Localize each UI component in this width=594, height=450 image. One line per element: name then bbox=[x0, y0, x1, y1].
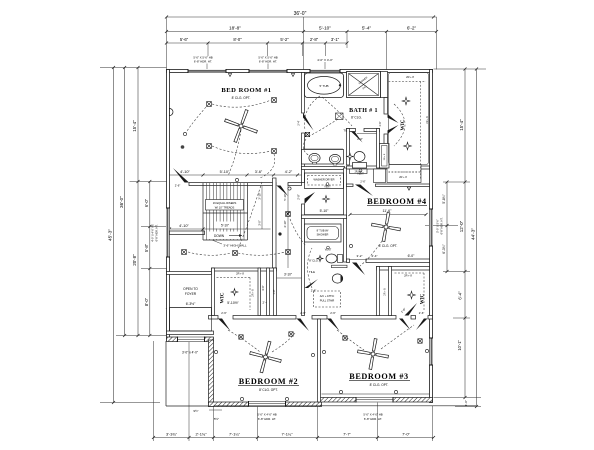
light bedroom2 1 bbox=[239, 335, 243, 339]
svg-text:2R + 8: 2R + 8 bbox=[406, 75, 414, 79]
door bbox=[303, 113, 314, 131]
svg-text:1'-0": 1'-0" bbox=[464, 400, 468, 406]
wic-tr dashed shelves bbox=[389, 82, 427, 180]
wall bedroom1 south bbox=[189, 183, 276, 186]
window bedroom1 W2 bbox=[249, 69, 287, 73]
bedroom3 interior floor line bbox=[322, 393, 430, 395]
outlet bedroom1 s bbox=[235, 178, 238, 181]
bedroom4 switch curve bbox=[360, 241, 382, 266]
toilet bath2 bbox=[326, 254, 337, 263]
light hall 3 bbox=[286, 212, 291, 217]
extension line mid bbox=[303, 17, 305, 70]
svg-text:2'-8": 2'-8" bbox=[310, 37, 319, 42]
outlet hall bbox=[288, 187, 291, 190]
wall bath west upper bbox=[302, 73, 305, 114]
svg-text:WIC: WIC bbox=[421, 293, 426, 304]
tick line left y268 bbox=[141, 268, 170, 270]
bedroom3 wiring 1 bbox=[337, 330, 364, 350]
ceiling fan bedroom1 bbox=[219, 104, 263, 148]
svg-text:4'-0" X 4'-0": 4'-0" X 4'-0" bbox=[317, 58, 333, 62]
svg-text:2R + 8: 2R + 8 bbox=[399, 176, 407, 179]
bedroom2 wiring 1 bbox=[228, 330, 260, 352]
toilet bath1 bbox=[354, 152, 365, 162]
window bedroom3 right bbox=[429, 338, 433, 365]
closet light bath2 bbox=[317, 256, 323, 262]
svg-text:36'-0": 36'-0" bbox=[119, 196, 124, 208]
bedroom1 wiring 4 bbox=[228, 130, 241, 176]
dim col 44-3 bbox=[476, 69, 478, 407]
bath2 water closet wall bbox=[332, 265, 348, 268]
dim col right inner 5-8 / 6-3 bbox=[446, 182, 448, 272]
light hall 1 bbox=[233, 251, 238, 256]
tick line right y406 bbox=[455, 406, 481, 408]
bath2 second toilet bbox=[332, 274, 342, 283]
door bbox=[173, 168, 189, 183]
closet light wic-mid bbox=[231, 289, 238, 296]
sink left bbox=[309, 153, 320, 162]
svg-text:FOYER: FOYER bbox=[185, 292, 197, 296]
svg-text:BEDROOM #3: BEDROOM #3 bbox=[349, 372, 408, 381]
wic-tr switch curve bbox=[394, 104, 405, 146]
dim row third tier bbox=[167, 42, 348, 44]
extension line right bbox=[436, 17, 438, 70]
bath wiring 4 bbox=[322, 97, 352, 126]
hall dim row lower bbox=[170, 228, 271, 230]
svg-text:WIC: WIC bbox=[220, 292, 226, 303]
svg-text:5'-0" X 4'-0" HB: 5'-0" X 4'-0" HB bbox=[257, 413, 276, 417]
stair void vertical dims bbox=[261, 186, 263, 229]
stair bottom edge bbox=[203, 239, 248, 241]
window left wall FX bbox=[166, 208, 170, 257]
dim col 15-4 20-8 bbox=[137, 68, 139, 336]
light hall 2 bbox=[286, 250, 291, 255]
knob dot bbox=[278, 232, 281, 235]
svg-text:2'-8": 2'-8" bbox=[297, 194, 301, 200]
svg-text:5'-8¾": 5'-8¾" bbox=[442, 193, 446, 203]
svg-text:15'-4": 15'-4" bbox=[459, 119, 464, 131]
ceiling fan bedroom2 bbox=[246, 337, 285, 376]
wall bath west lower bbox=[302, 133, 305, 183]
wall foyer top bbox=[167, 272, 212, 275]
door bbox=[405, 303, 418, 316]
tick line top-left bbox=[100, 67, 167, 69]
svg-text:VENT: VENT bbox=[324, 186, 331, 189]
svg-text:PULL STAIR: PULL STAIR bbox=[320, 299, 335, 303]
stair down arrow bbox=[208, 232, 240, 240]
wall bottom strip segment3 bbox=[312, 316, 327, 320]
tub bath1 bbox=[305, 73, 344, 98]
extension line bottom-left bbox=[153, 341, 155, 441]
svg-text:7'-7": 7'-7" bbox=[343, 431, 351, 436]
overhang line below bedroom3 bbox=[214, 405, 477, 407]
stair text box bbox=[206, 200, 244, 211]
bedroom3 wiring 2 bbox=[381, 325, 414, 349]
svg-text:TILE: TILE bbox=[309, 270, 315, 274]
svg-text:BATH # 1: BATH # 1 bbox=[349, 108, 378, 114]
dim 6-3half foyer bbox=[168, 307, 214, 309]
bath wiring 3 bbox=[303, 139, 310, 156]
svg-text:6'-4": 6'-4" bbox=[458, 291, 463, 300]
door hall to stairs bbox=[305, 192, 316, 204]
svg-text:3'-6": 3'-6" bbox=[255, 170, 263, 174]
door bbox=[388, 114, 399, 123]
door bbox=[388, 125, 399, 134]
outlet bedroom4 sw bbox=[349, 244, 352, 247]
wall bottom strip segment4 bbox=[341, 316, 396, 320]
svg-text:2R + 8: 2R + 8 bbox=[426, 116, 429, 124]
svg-text:3'-1": 3'-1" bbox=[331, 37, 340, 42]
door bedroom4 south bbox=[352, 263, 365, 276]
ac attic dashed box bbox=[314, 291, 341, 307]
vent triangle bedroom4 bbox=[407, 187, 410, 190]
door bedroom4 bbox=[355, 185, 373, 197]
bedroom1 wiring 1 bbox=[212, 100, 271, 107]
svg-text:3'-6" HIGH WALL: 3'-6" HIGH WALL bbox=[223, 244, 247, 248]
tick line right y397 bbox=[434, 397, 482, 399]
bedroom1 wiring 2 bbox=[212, 146, 271, 154]
door chime fixture bbox=[170, 109, 173, 116]
balcony left edge bbox=[165, 341, 167, 406]
door wic-br from bedroom3 bbox=[416, 319, 428, 331]
svg-text:2'-6": 2'-6" bbox=[175, 184, 181, 188]
svg-text:4'-10": 4'-10" bbox=[180, 170, 190, 174]
dim col inner left bbox=[149, 182, 151, 336]
svg-text:2'-6": 2'-6" bbox=[221, 311, 227, 315]
svg-text:A/C + ATTIC: A/C + ATTIC bbox=[320, 294, 335, 298]
svg-text:5'-10": 5'-10" bbox=[319, 25, 331, 30]
svg-text:5'-10": 5'-10" bbox=[220, 170, 230, 174]
svg-text:2'-4": 2'-4" bbox=[297, 120, 301, 125]
svg-text:2R + 8: 2R + 8 bbox=[236, 272, 244, 276]
svg-text:7'-1¼": 7'-1¼" bbox=[229, 431, 241, 436]
shower bath1 bbox=[347, 72, 381, 98]
bath wiring 2 bbox=[309, 119, 338, 136]
extension line balcony bbox=[188, 341, 190, 441]
outlet bedroom3 s1 bbox=[339, 390, 342, 393]
svg-text:W/ 10" TREADS: W/ 10" TREADS bbox=[215, 206, 235, 210]
outlet bedroom2 w bbox=[214, 350, 217, 353]
svg-text:SHOWER: SHOWER bbox=[317, 233, 329, 237]
wall stair east bbox=[273, 178, 277, 268]
svg-text:2'-6": 2'-6" bbox=[379, 121, 382, 126]
foyer opening bbox=[170, 308, 212, 332]
hall wiring 2 bbox=[290, 219, 306, 246]
wall bedroom4 north bbox=[347, 184, 354, 187]
wall chase right bbox=[274, 268, 277, 316]
door bbox=[277, 186, 289, 197]
window bedroom3 bottom bbox=[356, 397, 393, 403]
window balcony wall bbox=[178, 337, 205, 343]
bedroom1 wiring 5 bbox=[260, 154, 275, 178]
svg-text:20'-8": 20'-8" bbox=[132, 254, 137, 266]
wall chase mid bbox=[267, 268, 270, 316]
light bedroom3 1 bbox=[343, 336, 347, 340]
light hall diamond bbox=[323, 196, 330, 203]
tick line top-right bbox=[434, 68, 487, 70]
closet light toilet room bbox=[347, 153, 353, 159]
exterior right wall bbox=[430, 70, 433, 403]
svg-text:36'-0": 36'-0" bbox=[294, 11, 307, 17]
vanity counter bbox=[302, 150, 344, 165]
dim 3-10 hall bbox=[277, 277, 302, 279]
light bedroom2 2 bbox=[289, 332, 293, 336]
tick line right y271 bbox=[443, 271, 470, 273]
wall bath1 toilet room top bbox=[347, 129, 356, 132]
svg-text:3'-0": 3'-0" bbox=[257, 220, 261, 226]
svg-text:3'-10": 3'-10" bbox=[284, 273, 292, 277]
exterior hatched wall bedroom3 bottom bbox=[319, 398, 433, 403]
light bedroom1 se bbox=[272, 149, 277, 154]
vanity backsplash bbox=[303, 148, 343, 150]
window bedroom2 bottom bbox=[249, 401, 286, 407]
svg-text:6'-8": 6'-8" bbox=[262, 285, 265, 290]
svg-text:5'-10": 5'-10" bbox=[221, 224, 229, 228]
tick line right y318 bbox=[453, 317, 470, 319]
dim row 36-0 bbox=[167, 16, 434, 18]
window bedroom1 W1 bbox=[188, 69, 226, 73]
medicine box bbox=[336, 113, 344, 120]
svg-text:6'-8" HDR. HT.: 6'-8" HDR. HT. bbox=[258, 417, 276, 421]
svg-text:8' CLG. OPT.: 8' CLG. OPT. bbox=[232, 96, 251, 100]
wall bath south / vanity bbox=[302, 167, 345, 170]
svg-text:5'-4": 5'-4" bbox=[362, 25, 372, 30]
hall dim row upper bbox=[170, 174, 304, 176]
closet left of bedroom4 entry bbox=[350, 169, 368, 174]
svg-text:5'-10½": 5'-10½" bbox=[227, 301, 239, 305]
hall wiring 3 bbox=[188, 252, 231, 255]
svg-text:7'-0": 7'-0" bbox=[402, 431, 410, 436]
wall shower/wic divider bbox=[381, 72, 388, 98]
svg-text:5' TUB: 5' TUB bbox=[319, 84, 328, 88]
wic-tr inner outline bbox=[389, 73, 429, 165]
tick line left y181 bbox=[130, 181, 170, 183]
svg-text:2'-6": 2'-6" bbox=[300, 311, 306, 315]
bedroom1 wiring 3 bbox=[187, 107, 206, 131]
svg-text:WASHER DRYER: WASHER DRYER bbox=[313, 178, 334, 182]
svg-text:45'-3": 45'-3" bbox=[108, 229, 113, 241]
svg-text:4'-10": 4'-10" bbox=[179, 224, 189, 228]
wall wic-br top bbox=[377, 267, 430, 271]
svg-text:2'-1¾": 2'-1¾" bbox=[196, 431, 208, 436]
wall bath2 north bbox=[302, 215, 347, 219]
tub bath2 bbox=[305, 224, 342, 242]
svg-text:6'-8" HDR. HT.: 6'-8" HDR. HT. bbox=[440, 217, 444, 234]
svg-text:6'-8" HDR. HT.: 6'-8" HDR. HT. bbox=[259, 60, 277, 64]
exterior hatched wall bedroom2 bottom bbox=[209, 402, 322, 407]
wall laundry east + hall west bbox=[344, 168, 347, 262]
svg-text:6'-8" HDR. HT.: 6'-8" HDR. HT. bbox=[364, 417, 382, 421]
wiring bedroom1 to hall bbox=[238, 182, 262, 249]
exterior hatched wall balcony bbox=[167, 337, 214, 342]
bedroom4 reach-in closet bbox=[387, 165, 421, 183]
svg-text:2'-0": 2'-0" bbox=[357, 137, 363, 141]
svg-text:1'-9": 1'-9" bbox=[273, 289, 276, 294]
svg-text:8' CLG. OPT.: 8' CLG. OPT. bbox=[370, 383, 389, 387]
wall foyer bottom bbox=[167, 331, 214, 335]
dim col right 15-4 / 12-0 / 6-4 / 10-1 bbox=[464, 69, 466, 398]
stairwell risers bbox=[205, 183, 207, 240]
wall bottom strip segment2 bbox=[233, 316, 296, 320]
svg-text:5½": 5½" bbox=[214, 417, 219, 421]
exterior top wall bbox=[167, 70, 433, 73]
sink right bbox=[329, 154, 340, 163]
svg-text:6'-0": 6'-0" bbox=[144, 198, 149, 207]
wall bedroom4 south bbox=[347, 259, 350, 263]
ceiling fan bedroom3 bbox=[355, 336, 391, 372]
dim row bedroom4 bbox=[350, 214, 426, 216]
svg-text:BED ROOM #1: BED ROOM #1 bbox=[221, 87, 271, 94]
outlet bedroom2 s2 bbox=[285, 397, 288, 400]
wall wic-mid left bbox=[212, 268, 215, 316]
svg-text:8' CLG.: 8' CLG. bbox=[351, 116, 362, 120]
svg-text:3'-0" x 4'-0": 3'-0" x 4'-0" bbox=[182, 351, 198, 355]
closet light wic-br bbox=[408, 291, 416, 299]
dim col 45-3 bbox=[113, 68, 115, 403]
dim row second tier bbox=[167, 31, 437, 33]
svg-text:4'-2": 4'-2" bbox=[285, 170, 293, 174]
wall bottom strip segment5 bbox=[411, 316, 416, 320]
door bedroom2 right bbox=[297, 319, 310, 332]
window bedroom4 right bbox=[429, 209, 433, 246]
dim col 36-0 left bbox=[124, 68, 126, 336]
svg-text:5'-0" X 4'-0" HB: 5'-0" X 4'-0" HB bbox=[363, 413, 382, 417]
tick line left y226 bbox=[141, 226, 170, 228]
svg-text:2'-6": 2'-6" bbox=[330, 311, 336, 315]
svg-text:7'-1¼": 7'-1¼" bbox=[282, 431, 294, 436]
wall bottom strip segment6 bbox=[428, 316, 433, 320]
svg-text:DOWN: DOWN bbox=[214, 234, 225, 238]
wall bedroom2/3 divider bbox=[318, 319, 321, 402]
svg-text:6'-3¾": 6'-3¾" bbox=[442, 243, 446, 253]
svg-text:2'-6": 2'-6" bbox=[360, 180, 365, 184]
svg-text:6'-8" HDR. HT.: 6'-8" HDR. HT. bbox=[194, 60, 212, 64]
svg-text:8' TUB W/: 8' TUB W/ bbox=[317, 229, 329, 233]
outlet bedroom2 e bbox=[311, 353, 314, 356]
svg-text:3'-10": 3'-10" bbox=[257, 192, 261, 199]
tick line right y182 bbox=[443, 181, 470, 183]
door bbox=[305, 279, 319, 288]
tick line bottom-left bbox=[100, 402, 160, 404]
svg-text:4'-0" X 4'-0" FX: 4'-0" X 4'-0" FX bbox=[151, 224, 155, 242]
door bedroom3 bbox=[327, 319, 340, 332]
wall wic-mid top bbox=[212, 268, 277, 271]
svg-text:9½": 9½" bbox=[193, 409, 198, 413]
svg-text:8'-0": 8'-0" bbox=[233, 37, 242, 42]
door bbox=[351, 132, 363, 143]
stair east stringer bbox=[247, 183, 249, 240]
door bedroom3 right bbox=[399, 319, 411, 331]
door bedroom2 bbox=[218, 319, 231, 332]
tick line left y335 bbox=[116, 335, 167, 337]
svg-text:5'-6": 5'-6" bbox=[180, 37, 189, 42]
hose bib symbol W1 bbox=[228, 74, 231, 77]
svg-text:2R + 8: 2R + 8 bbox=[404, 274, 412, 278]
svg-text:3'-2": 3'-2" bbox=[357, 254, 363, 258]
wall wic-br left2 bbox=[389, 267, 392, 316]
svg-text:8' CLG. OPT.: 8' CLG. OPT. bbox=[379, 244, 398, 248]
outlet bedroom2 s1 bbox=[240, 397, 243, 400]
svg-text:OPEN TO: OPEN TO bbox=[183, 287, 198, 291]
closet light wic-tr 2 bbox=[404, 142, 412, 150]
svg-text:8' CLG.: 8' CLG. bbox=[309, 259, 319, 263]
svg-text:5'-8": 5'-8" bbox=[144, 243, 149, 252]
linen closet bbox=[380, 144, 390, 169]
closet light wic-tr 1 bbox=[402, 97, 410, 105]
bedroom2 wiring 2 bbox=[272, 333, 295, 352]
hose bib symbol W2 bbox=[291, 74, 294, 77]
hall wiring 1 bbox=[238, 252, 285, 255]
laundry closet walls bbox=[305, 173, 344, 189]
svg-text:8' CLG. OPT.: 8' CLG. OPT. bbox=[259, 388, 278, 392]
wall stair hall east lower bbox=[302, 204, 305, 316]
outlet bedroom3 e bbox=[425, 349, 428, 352]
svg-text:6'-3½": 6'-3½" bbox=[186, 302, 196, 306]
outlet bedroom3 s2 bbox=[394, 390, 397, 393]
svg-text:2'-4": 2'-4" bbox=[372, 254, 378, 258]
wall bath1 toilet room left bbox=[347, 129, 350, 166]
half wall stair west bbox=[170, 231, 205, 235]
svg-text:6'-0": 6'-0" bbox=[408, 254, 416, 258]
svg-text:44'-3": 44'-3" bbox=[471, 228, 476, 240]
bath wiring 1 bbox=[305, 96, 320, 130]
balcony bottom edge bbox=[166, 405, 209, 407]
stair west stringer bbox=[202, 183, 204, 240]
svg-text:2R + 8: 2R + 8 bbox=[384, 153, 386, 160]
svg-text:18'-8": 18'-8" bbox=[229, 25, 241, 30]
svg-text:6'-2": 6'-2" bbox=[407, 25, 417, 30]
washer dryer dashed box bbox=[308, 176, 341, 186]
svg-text:8'-0": 8'-0" bbox=[144, 297, 149, 306]
wall bottom strip west segment bbox=[209, 316, 219, 320]
svg-text:16 EQUAL RISERS: 16 EQUAL RISERS bbox=[213, 201, 237, 205]
svg-text:4'-10": 4'-10" bbox=[283, 220, 287, 227]
light hall 4 bbox=[182, 250, 187, 255]
exterior hatched wall bedroom2 left bbox=[209, 340, 214, 407]
svg-text:VENT: VENT bbox=[357, 173, 364, 176]
svg-text:10'-1": 10'-1" bbox=[457, 339, 462, 350]
bath2 switch curve bbox=[308, 248, 313, 288]
light bath1 entry bbox=[305, 132, 309, 136]
svg-text:BEDROOM #2: BEDROOM #2 bbox=[239, 377, 298, 386]
wall bath1 toilet room right bbox=[377, 129, 380, 169]
svg-text:2'-6": 2'-6" bbox=[419, 311, 425, 315]
light bedroom3 2 bbox=[418, 339, 422, 343]
svg-text:3'-3¾": 3'-3¾" bbox=[166, 431, 178, 436]
stair mid landing line bbox=[203, 212, 248, 214]
svg-text:12'-0": 12'-0" bbox=[459, 220, 464, 232]
wall symbol bedroom1 bbox=[181, 145, 185, 149]
dim 5-4 bath bbox=[357, 133, 378, 135]
light bedroom1 sw bbox=[207, 144, 212, 149]
svg-text:2R + 8: 2R + 8 bbox=[384, 288, 387, 296]
extension line left bbox=[166, 17, 168, 70]
svg-text:5'-0" X 5'-0": 5'-0" X 5'-0" bbox=[436, 219, 440, 233]
outlet bedroom1 w bbox=[183, 132, 186, 135]
light bedroom1 nw bbox=[207, 102, 212, 107]
svg-text:5'-2": 5'-2" bbox=[280, 37, 289, 42]
wall wic-tr west upper bbox=[384, 98, 388, 115]
outlet bedroom3 w bbox=[322, 350, 325, 353]
wall wic-tr west lower bbox=[384, 134, 388, 165]
window bath tub bbox=[310, 69, 340, 73]
wall wic-mid right bbox=[258, 268, 261, 316]
svg-text:15'-4": 15'-4" bbox=[132, 120, 137, 132]
svg-text:5'-10": 5'-10" bbox=[320, 209, 329, 213]
svg-text:2R + 8: 2R + 8 bbox=[252, 289, 255, 297]
dim row below bedroom4 bbox=[347, 259, 430, 261]
svg-text:6'-8" HDR. HT.: 6'-8" HDR. HT. bbox=[155, 224, 159, 241]
light bedroom1 ne bbox=[272, 98, 277, 103]
